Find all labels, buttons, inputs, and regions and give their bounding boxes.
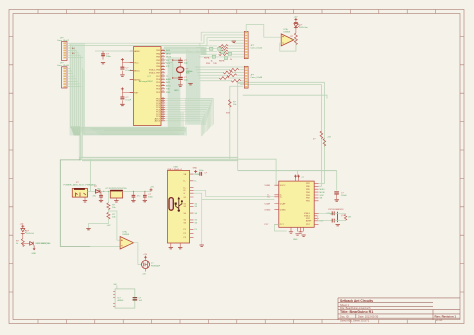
svg-text:0.1uF: 0.1uF	[126, 100, 132, 102]
svg-text:UCAP: UCAP	[280, 202, 286, 205]
wire header2 row6	[200, 80, 244, 82]
svg-text:Conn_01x10: Conn_01x10	[250, 48, 263, 50]
title block border lines	[338, 298, 460, 320]
wire LED to resistor	[295, 29, 297, 33]
wire bus band corner V1-A nested turns	[90, 112, 183, 135]
wire header2 row4	[198, 74, 244, 76]
svg-text:1k: 1k	[211, 60, 213, 62]
junction dots 5v rail	[133, 191, 134, 192]
IC2 right pin stubs bottom group	[314, 213, 318, 224]
svg-text:XTAL1_PB6: XTAL1_PB6	[149, 68, 161, 71]
IC1 left pin stubs	[130, 51, 134, 93]
wire IC2 left pc7 loop	[274, 224, 286, 231]
wire cap1 drop	[100, 191, 102, 200]
wire header2 row3	[197, 72, 244, 74]
ground symbol below C aref	[101, 63, 105, 64]
wire cap3 drop	[144, 191, 146, 200]
wire single from band B to left down to comparator	[60, 160, 90, 247]
wire header1 row9	[201, 53, 244, 55]
IC2 bottom stubs	[291, 227, 304, 231]
junction dot output	[295, 39, 297, 41]
wire +5V rail horizontal y170.6	[238, 170, 337, 172]
resistor R power led	[21, 239, 24, 247]
svg-text:100n: 100n	[106, 56, 112, 58]
ground symbol divider	[86, 228, 90, 229]
resonator plates	[332, 211, 337, 222]
wire header2 row7	[238, 83, 245, 85]
wire bus band fill trunk V2	[186, 48, 201, 125]
svg-text:+5V: +5V	[142, 274, 146, 276]
svg-text:AREF: AREF	[134, 50, 140, 53]
USB trident dot	[178, 209, 180, 211]
wire jack to diode	[88, 190, 96, 192]
resistor R divider1	[107, 203, 110, 210]
wire header1 row6	[207, 45, 245, 47]
wire divider mid	[107, 210, 109, 213]
wire bus band corner wedge V0-A	[71, 126, 81, 135]
svg-text:+5V: +5V	[107, 225, 111, 227]
USB trident circle	[181, 200, 183, 202]
svg-text:100n: 100n	[199, 170, 203, 172]
bus wires V0 vertical lines	[71, 44, 85, 157]
regulator U NCP1117 body	[110, 190, 122, 198]
USB trident symbol	[176, 199, 182, 210]
wire comparator output to FET gate	[134, 243, 142, 265]
svg-text:Conn_01x08: Conn_01x08	[250, 77, 263, 79]
net label boxes green	[210, 47, 232, 59]
wire net from band B to IC2 left pin	[238, 159, 279, 185]
wire resonator to resistor	[334, 213, 345, 220]
wire header1 row2 wrap	[67, 35, 244, 43]
header2 pads	[245, 67, 247, 88]
svg-text:ADC6: ADC6	[155, 120, 161, 123]
regulator gnd stub	[115, 198, 117, 200]
mesh red ref labels	[204, 57, 232, 65]
svg-text:Doc. ID:: Doc. ID:	[340, 314, 350, 318]
wire LED chain top	[295, 21, 297, 23]
svg-text:16M: 16M	[330, 214, 334, 216]
wire header2 row5	[199, 77, 244, 79]
connector JP header1 body	[244, 31, 248, 58]
wire comparator minus input	[90, 245, 120, 248]
svg-text:MISO: MISO	[166, 53, 172, 55]
svg-text:GND: GND	[193, 168, 198, 170]
transistor T FDN340P body	[142, 261, 150, 269]
svg-text:Date: 2013-05-30: Date: 2013-05-30	[358, 314, 379, 318]
IC2 left pin names red	[280, 185, 286, 226]
capacitor C avcc plates	[120, 97, 124, 99]
resistor RN row6	[219, 45, 228, 48]
wire bus band fill horizontal A	[70, 127, 187, 136]
svg-text:LM358: LM358	[284, 32, 291, 34]
capacitor C out1 plates	[132, 195, 136, 197]
USB trident square	[175, 203, 177, 205]
wire divider tap to comparator	[108, 211, 120, 240]
svg-text:SCK: SCK	[320, 195, 325, 197]
ground symbol resonator	[336, 225, 340, 226]
bus wires trunk V2 vertical lines	[187, 49, 199, 124]
wire AREF to IC1	[95, 50, 134, 52]
wire chain2	[122, 90, 133, 103]
svg-text:UGND: UGND	[265, 209, 271, 211]
wire D+ vertical to IC2	[238, 82, 324, 183]
connector JP header2 body	[244, 66, 248, 88]
bus wires band A horizontal lines	[72, 127, 186, 134]
svg-text:+5V: +5V	[150, 187, 154, 189]
barrel jack top bar	[74, 188, 85, 190]
capacitor C xtal2 plates	[178, 77, 183, 79]
svg-text:Setback Ant Circuits: Setback Ant Circuits	[340, 299, 373, 303]
junction dot xtal2	[172, 77, 173, 78]
svg-text:D-: D-	[195, 181, 197, 183]
wire bus band fill vertical V1	[168, 57, 181, 128]
resistor RN row7	[219, 47, 228, 50]
supply cross power led	[21, 225, 24, 228]
svg-text:MISO: MISO	[320, 189, 326, 191]
svg-text:Conn_01x07: Conn_01x07	[57, 40, 70, 42]
wire regulator out	[123, 190, 151, 192]
resistor mesh row6	[231, 79, 240, 82]
svg-text:RN?B: RN?B	[219, 61, 225, 63]
resistor reset line vertical	[228, 100, 231, 108]
svg-text:RXD: RXD	[166, 92, 171, 94]
header A wires	[67, 48, 83, 58]
jack gnd stub	[84, 197, 86, 200]
wire header1 row8	[203, 50, 244, 52]
wire 5v feed vertical x90.4	[89, 160, 91, 192]
supply +5V power rail	[150, 188, 153, 191]
svg-text:GND: GND	[32, 253, 37, 255]
capacitor C vbus plates vertical	[200, 172, 202, 176]
connector X USB body	[168, 170, 190, 243]
svg-text:0.1uF: 0.1uF	[126, 70, 132, 72]
resistor mesh row3	[223, 71, 232, 74]
wire shield drop	[201, 199, 203, 244]
junction dot band B left	[79, 159, 81, 161]
resistor mesh row5	[219, 77, 228, 80]
ground symbol shield	[200, 245, 204, 246]
svg-text:100nF: 100nF	[341, 195, 347, 197]
svg-text:Rev: Revision 1: Rev: Revision 1	[435, 315, 457, 319]
svg-text:v1 1/1: v1 1/1	[436, 319, 443, 322]
svg-text:SCK: SCK	[166, 50, 171, 52]
USB trident arrowhead	[178, 197, 181, 200]
wire bus band fill V0 narrow lower	[79, 131, 82, 160]
svg-text:USB: USB	[173, 166, 178, 168]
supply cross USB vbus	[194, 170, 197, 173]
ground symbol header1 row5	[232, 41, 236, 42]
svg-text:FDN340P: FDN340P	[151, 265, 161, 267]
USB pin labels green	[195, 174, 201, 231]
op-amp plus minus marks	[282, 36, 284, 43]
wire trunk vertical x237.7	[237, 82, 239, 170]
transistor inner strokes	[144, 262, 148, 268]
wire header2 row1	[195, 66, 244, 68]
supply cross chain2	[121, 87, 124, 90]
wire XTAL1 to crystal	[165, 60, 173, 78]
svg-text:TXD: TXD	[213, 63, 218, 65]
ground symbols IC2 bottom	[289, 232, 306, 237]
wire +5V drop to IC2 top	[296, 171, 298, 177]
svg-text:RST: RST	[134, 92, 139, 94]
wire D- vertical to IC2	[240, 85, 321, 187]
LED D green symbol	[294, 23, 298, 29]
ground symbol jack	[83, 201, 87, 202]
resistor 22R D-	[323, 139, 326, 147]
wire crystal chain vertical	[173, 58, 181, 85]
svg-text:MBR0520LT: MBR0520LT	[36, 243, 48, 245]
svg-text:16MHz: 16MHz	[186, 71, 193, 73]
wire divider bottom to gnd	[89, 219, 109, 228]
resistor mesh row2	[229, 68, 238, 71]
junction dot divider	[108, 191, 109, 192]
supply cross opamp	[294, 18, 297, 21]
IC2 right pin stubs top group	[314, 183, 318, 200]
svg-text:MOSI: MOSI	[320, 192, 326, 194]
wire divider top	[107, 191, 109, 202]
capacitor C greenbox plates	[133, 298, 138, 300]
header B pads	[63, 68, 66, 88]
wire header2 row2	[196, 69, 244, 71]
wire op-amp input feed	[246, 25, 281, 38]
svg-text:LM358: LM358	[123, 234, 130, 236]
svg-text:POWER_JACK_SLOT_PWRJACK: POWER_JACK_SLOT_PWRJACK	[64, 184, 97, 187]
svg-text:U? NCP1117ST50T3G: U? NCP1117ST50T3G	[106, 188, 127, 190]
connector X1 barrel jack body	[72, 189, 87, 198]
svg-text:CSTCE16M0V53: CSTCE16M0V53	[328, 209, 344, 211]
bus wires V1 vertical lines	[169, 58, 179, 130]
ground symbol C in	[99, 200, 103, 201]
svg-text:+5V: +5V	[20, 223, 24, 225]
bus wires staircase horizontals from IC1	[165, 99, 214, 121]
resistor RN row8	[219, 50, 228, 53]
header1 pads	[245, 32, 247, 58]
wire op-amp feedback loop	[280, 40, 296, 51]
diode D M7	[95, 190, 100, 194]
svg-text:UGND: UGND	[280, 209, 286, 211]
wire chain1	[122, 61, 133, 74]
transistor top bottom stubs	[145, 259, 147, 272]
connector JP header B body	[62, 67, 68, 88]
wire cap drop at x336.7	[336, 171, 338, 191]
svg-text:1k: 1k	[230, 59, 232, 61]
ground symbol crystal	[178, 85, 182, 86]
svg-text:D-: D-	[184, 181, 186, 183]
ground symbol usb1	[169, 248, 173, 249]
USB right pin stubs	[190, 174, 194, 237]
svg-text:AVCC: AVCC	[134, 69, 140, 72]
resistor mesh row4	[227, 74, 236, 77]
resistor R divider2	[107, 212, 110, 219]
svg-text:AGND: AGND	[118, 299, 124, 302]
svg-text:UCAP: UCAP	[265, 202, 271, 205]
wire header1 row3 wrap	[67, 38, 244, 46]
IC1 right pin stubs	[161, 50, 165, 120]
filter IC green box body	[115, 289, 135, 308]
svg-text:1M: 1M	[348, 217, 351, 219]
svg-text:GND: GND	[174, 90, 179, 92]
comparator plus minus marks	[121, 239, 123, 246]
svg-text:TXD: TXD	[166, 89, 171, 91]
junction dot vin	[103, 191, 104, 192]
IC2 left pin labels red	[265, 185, 271, 226]
IC2 left pin stubs	[274, 185, 278, 224]
wire diode to regulator	[100, 190, 110, 192]
wire USB vbus top	[194, 172, 196, 174]
capacitor C out2 plates	[143, 195, 147, 197]
wire header1 row10	[199, 56, 244, 58]
capacitor C xtal1 plates	[178, 60, 183, 62]
bus wires staircase verticals	[201, 99, 213, 137]
wire bus band fill left vertical V0	[70, 43, 86, 136]
wire resistor to diode	[23, 243, 30, 245]
svg-text:ATmega328-P: ATmega328-P	[139, 80, 153, 83]
wire header1 row7	[205, 48, 245, 50]
wire bus band fill top row band1	[164, 46, 207, 54]
supply cross VCC chain1	[121, 58, 124, 61]
wire IC2 xtal pair	[318, 213, 334, 220]
frame row ticks left	[9, 36, 13, 292]
green box top stub	[116, 285, 118, 289]
wire header1 row4	[209, 39, 244, 41]
op IC2 ATmega16U2 body	[279, 181, 314, 227]
capacitor C ucap plates	[334, 192, 339, 194]
ground symbol C out1	[131, 200, 135, 201]
frame column ticks bottom	[38, 320, 436, 324]
bus wires band1 horizontal lines	[164, 47, 206, 53]
frame row ticks right	[460, 36, 464, 292]
header A pads	[63, 42, 66, 58]
wire bus band fill staircase column	[185, 98, 214, 125]
wire gnd horizontal y95.2	[243, 95, 327, 98]
resistor 22R D+	[320, 131, 323, 139]
svg-text:RN?A: RN?A	[204, 57, 210, 60]
svg-text:Title: BearDuino R1: Title: BearDuino R1	[340, 310, 373, 314]
wire reset vertical x229.8	[230, 86, 243, 159]
connector JP header A body	[62, 42, 68, 61]
header B wires	[67, 68, 82, 86]
svg-text:U?A: U?A	[123, 231, 128, 234]
wire bus band fill trunk block	[196, 47, 207, 55]
wire cap2 drop	[133, 191, 135, 200]
LED arrows	[298, 24, 300, 27]
svg-text:LED-Gre: LED-Gre	[300, 26, 309, 29]
ground symbol regulator	[114, 201, 118, 202]
wire op-amp output	[294, 39, 296, 41]
green box left stubs	[113, 292, 115, 307]
svg-text:LED-Yel: LED-Yel	[26, 233, 34, 235]
wire header1 row5 to gnd	[234, 42, 245, 44]
capacitor C in plates	[99, 195, 103, 197]
svg-text:Sized A3/L Sheet 30.5/72: Sized A3/L Sheet 30.5/72	[340, 318, 370, 322]
USB pin names red	[184, 174, 187, 239]
barrel jack inner pin details	[76, 193, 87, 197]
wire led to resistor	[22, 235, 24, 239]
IC2 right pin names red	[304, 183, 312, 226]
wire dm dp to IC2	[194, 190, 275, 199]
IC1 right pin number ticks	[162, 49, 164, 119]
frame column ticks top	[38, 10, 436, 14]
ground symbol chain2	[120, 104, 124, 105]
svg-text:XTAL2_PB7: XTAL2_PB7	[149, 72, 161, 75]
USB bottom stubs	[171, 243, 180, 247]
svg-text:UVCC: UVCC	[280, 185, 286, 187]
junction dot xtal1	[172, 59, 173, 60]
ground symbol ucap	[335, 200, 339, 201]
LED power arrows	[25, 230, 27, 233]
ground symbol C out2	[143, 200, 147, 201]
IC2 right pin labels green	[320, 189, 332, 223]
svg-text:RXD: RXD	[206, 63, 211, 65]
capacitor C vcc plates	[120, 67, 124, 69]
op IC1 ATmega328P body	[134, 47, 162, 126]
wire ucap	[336, 194, 338, 199]
resistor 1M vertical	[344, 214, 347, 220]
crystal Y1 body	[177, 67, 184, 73]
ground symbol mesh area	[188, 84, 192, 85]
svg-text:GND: GND	[293, 239, 298, 241]
supply cross IC2 top	[294, 175, 300, 178]
resistor RN row9	[219, 53, 228, 56]
IC1 right pin net labels	[166, 50, 190, 94]
IC2 top stubs	[296, 176, 299, 181]
ground symbol chain1	[120, 75, 124, 76]
resistor R led vertical	[294, 33, 297, 45]
svg-text:AREF: AREF	[306, 220, 312, 223]
wire mesh nested corner extra	[200, 32, 244, 46]
wire diode down arrow	[33, 245, 35, 250]
supply cross FET	[144, 256, 147, 259]
wire band B long horizontal pair	[79, 157, 238, 160]
capacitor C aref wires	[102, 51, 104, 60]
op-amp U?B LM358 comparator triangle	[120, 237, 133, 250]
regulator top tab bar	[110, 190, 122, 192]
diode small horizontal	[30, 242, 34, 246]
svg-text:U?A: U?A	[284, 28, 289, 31]
capacitor C aref plates	[101, 54, 105, 56]
IC1 pin name text column	[134, 50, 161, 123]
svg-text:Conn_01x08: Conn_01x08	[57, 65, 70, 67]
svg-text:VCC: VCC	[134, 62, 139, 64]
wire resistor to output junction	[295, 43, 297, 51]
ground symbol usb2	[178, 248, 182, 249]
op-amp U?A LM358 triangle	[281, 34, 294, 46]
svg-text:VUSB: VUSB	[265, 185, 271, 187]
svg-text:MOSI: MOSI	[166, 57, 172, 59]
USB receptacle icon	[169, 198, 173, 211]
LED D power symbol	[21, 228, 25, 235]
